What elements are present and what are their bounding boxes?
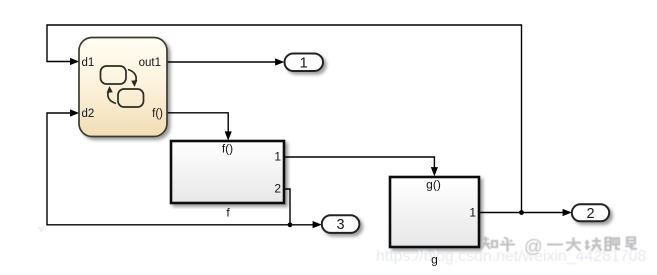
- svg-text:@: @: [524, 236, 543, 257]
- svg-text:1: 1: [300, 55, 308, 71]
- svg-text:1: 1: [469, 206, 476, 220]
- svg-text:2: 2: [586, 206, 594, 222]
- svg-text:f(): f(): [222, 142, 233, 156]
- svg-text:1: 1: [274, 150, 281, 164]
- svg-text:g: g: [431, 253, 438, 267]
- svg-text:f(): f(): [152, 108, 163, 120]
- svg-text:2: 2: [274, 182, 281, 196]
- svg-text:3: 3: [337, 217, 345, 233]
- svg-text:d2: d2: [82, 108, 95, 120]
- svg-text:d1: d1: [82, 57, 95, 69]
- svg-text:g(): g(): [426, 178, 441, 192]
- svg-text:out1: out1: [139, 57, 161, 69]
